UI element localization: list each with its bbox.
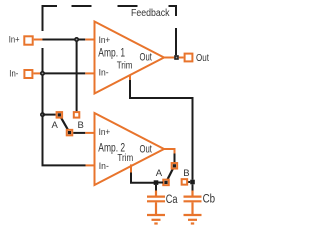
switch blade S1 [59,115,69,133]
node B junction [190,180,195,185]
Amp2 out pin [164,149,175,154]
wire pole to Amp2 In+ [73,132,85,134]
Amp1 trim pin [129,75,131,81]
op-amp U1 [95,22,165,94]
Out terminal stub [179,57,184,59]
svg-text:In-: In- [9,68,18,79]
pole terminal (S2) [172,163,178,169]
svg-text:Out: Out [196,52,209,64]
svg-text:In-: In- [99,161,109,172]
svg-text:In+: In+ [9,35,20,46]
svg-text:Feedback: Feedback [131,8,170,19]
wire node B to Cb [192,184,194,190]
In- terminal [24,70,32,78]
terminal A (S1) [57,112,63,118]
terminal A (S2) [163,180,169,186]
wire node A to terminal [156,182,163,184]
terminal B (S2) [182,179,188,185]
junction In- [41,72,44,75]
svg-text:B: B [78,120,84,131]
svg-text:Out: Out [140,51,152,63]
svg-text:In+: In+ [99,127,111,138]
terminal B (S1) [74,112,80,118]
junction switch A [41,113,44,116]
feedback wire [175,28,177,55]
In+ terminal [24,36,32,44]
ground (Ca) [147,215,165,224]
wire B to In+ net [76,40,78,112]
In- pin stub [33,72,40,74]
svg-text:Cb: Cb [203,194,216,206]
ground (Cb) [184,215,202,224]
feedback dashed net [42,5,177,31]
wire out2 to pole [174,154,176,163]
svg-text:In-: In- [99,68,109,79]
Amp2 In- pin [86,164,95,166]
svg-text:Trim: Trim [117,152,133,164]
wire In- net vertical [43,48,86,165]
stub B to node B [188,181,190,183]
capacitor Cb [184,191,202,215]
node Out junction [174,55,179,60]
svg-text:Trim: Trim [117,60,133,72]
Amp1 In+ pin [85,39,94,41]
svg-text:In+: In+ [99,35,111,46]
svg-text:A: A [156,168,163,179]
Amp1 out pin [164,57,174,59]
junction In+ [75,38,78,41]
Amp1 In- pin [85,72,94,74]
svg-text:Out: Out [140,143,152,155]
wire node A to Ca [155,185,157,191]
Amp2 trim pin [130,164,132,172]
pole terminal (S1) [67,130,73,136]
wire junction A to switch [43,114,56,116]
op-amp U2 [95,113,165,185]
wire In- [40,72,85,74]
svg-text:A: A [52,120,59,131]
Amp2 In+ pin [85,132,94,134]
wire In+ [42,39,85,41]
svg-text:B: B [183,168,189,179]
wire trim2 to node A [131,173,154,183]
svg-text:Ca: Ca [166,194,178,206]
capacitor Ca [147,191,165,215]
switch blade S2 [166,166,174,183]
svg-text:Amp. 1: Amp. 1 [98,48,125,60]
node A junction [154,180,159,185]
wire trim1 to node B [130,80,193,180]
Out terminal [185,54,193,62]
In+ pin stub [34,39,43,41]
